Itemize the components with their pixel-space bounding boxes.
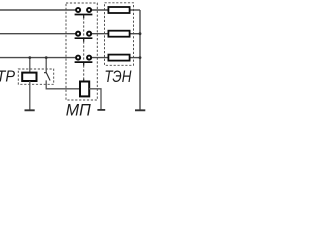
wire heater2 to star point <box>130 33 141 35</box>
wire phase line L2 <box>0 33 76 35</box>
mechanical link dashed <box>83 17 85 81</box>
terminal bar left <box>25 109 35 111</box>
wire star-point bus down <box>139 10 141 110</box>
wire L3 contact to heater <box>91 57 109 59</box>
heater element TEN1 <box>108 7 129 13</box>
svg-text:МП: МП <box>66 100 92 119</box>
wire heater3 to star point <box>130 57 141 59</box>
wire TR contact drop from L3 <box>45 58 47 73</box>
terminal bar right <box>135 109 145 111</box>
coil MP <box>80 82 89 97</box>
wire TR heater down to terminal <box>29 81 31 110</box>
wire phase line L3 <box>0 57 76 59</box>
contact KM2 circles <box>75 32 93 42</box>
wire L1 contact to heater <box>91 9 109 11</box>
node junction L3 bus <box>139 56 142 59</box>
node junction L2 bus <box>139 32 142 35</box>
wire L2 contact to heater <box>91 33 109 35</box>
terminal bar middle <box>97 109 105 111</box>
contact KM3 circles <box>75 56 93 66</box>
wire heater1 to star point <box>130 9 141 11</box>
contact TR NC blade <box>44 73 50 81</box>
wire phase line L1 <box>0 9 76 11</box>
wire TR contact to coil <box>46 80 80 88</box>
enclosure TR dashed box <box>18 69 53 84</box>
heater element TR <box>22 73 36 81</box>
svg-text:ТЭН: ТЭН <box>104 68 131 86</box>
svg-text:ТР: ТР <box>0 69 15 86</box>
enclosure TEN dashed box <box>105 3 134 66</box>
heater element TEN3 <box>108 55 129 61</box>
wire coil to right terminal <box>89 89 101 110</box>
wire coil top stub <box>83 79 85 82</box>
enclosure MP dashed box <box>66 3 97 100</box>
node junction L3 TR heater <box>28 56 31 59</box>
node junction L3 TR contact <box>45 56 48 59</box>
heater element TEN2 <box>108 31 129 37</box>
contact KM1 circles <box>75 8 93 18</box>
wire TR heater drop from L3 <box>29 58 31 73</box>
